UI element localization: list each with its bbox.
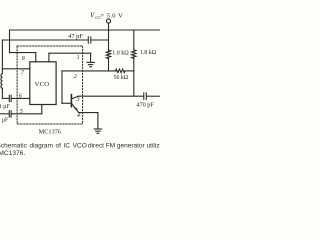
wire collector / output line	[78, 95, 143, 97]
svg-text:6: 6	[19, 94, 22, 100]
label 56 kOhm	[114, 75, 129, 81]
svg-text:direct FM generator utilizing: direct FM generator utilizing	[88, 143, 160, 150]
pin 6	[19, 94, 22, 100]
svg-text:56 kΩ: 56 kΩ	[114, 75, 129, 81]
svg-text:470 pF: 470 pF	[136, 102, 154, 109]
ground pin 1	[87, 61, 94, 63]
emitter arrow	[74, 107, 78, 110]
capacitor C 470pF	[143, 93, 145, 100]
label Vcc value	[90, 11, 123, 20]
svg-text:1.8 kΩ: 1.8 kΩ	[140, 50, 157, 56]
pin 1	[77, 55, 80, 61]
svg-text:MC1376.: MC1376.	[0, 150, 25, 157]
pin 7	[21, 71, 25, 77]
svg-text:3: 3	[76, 97, 80, 103]
wire 56k to R1.8k lead	[125, 70, 134, 72]
wire Vcc stub	[108, 23, 110, 30]
wire pin 8 stub into VCO	[35, 53, 37, 62]
svg-text:V: V	[90, 11, 95, 19]
pin 2	[74, 74, 77, 80]
IC dashed box MC1376	[17, 46, 83, 124]
wire pin 5 stub into VCO	[41, 105, 43, 114]
svg-text:5: 5	[20, 109, 23, 115]
caption line 2	[0, 150, 25, 157]
svg-text:MC1376: MC1376	[39, 129, 61, 136]
wire pin 1 line to ground	[49, 52, 91, 54]
resistor R1 1.0k vertical	[108, 30, 110, 50]
transistor Q1 emitter	[72, 104, 79, 113]
wire base lead	[62, 102, 71, 104]
wire pin 1 stub from VCO top	[48, 53, 50, 62]
label 1.0 kOhm	[112, 50, 129, 56]
transistor Q1 collector	[72, 96, 78, 99]
wire pin 7 line	[2, 68, 29, 70]
label 470 pF	[136, 102, 154, 109]
inductor L1	[1, 74, 2, 89]
resistor R 56k zigzag	[116, 69, 126, 73]
wire Vcc bus	[10, 29, 161, 31]
pin 4	[77, 112, 80, 119]
svg-text:.1 µF: .1 µF	[0, 118, 9, 124]
transistor Q1 base bar	[70, 95, 72, 107]
svg-text:.01 µF: .01 µF	[0, 104, 10, 110]
capacitor C .1uF	[8, 111, 10, 117]
pin 8	[22, 56, 25, 62]
wire pin 8 line	[10, 52, 36, 54]
wire pin 4 line	[79, 112, 98, 114]
label .1 uF	[0, 118, 9, 124]
VCO block	[30, 62, 56, 105]
ground pin 4	[94, 128, 101, 130]
label 1.8 kOhm	[140, 50, 157, 56]
wire pin 6 line	[2, 97, 9, 99]
wire inductor bottom	[1, 88, 3, 98]
svg-text:Schematic diagram of IC VCO: Schematic diagram of IC VCO	[0, 143, 87, 150]
wire bus left drop to pin 8	[9, 30, 11, 53]
capacitor C 47 pF	[87, 37, 89, 43]
wire 47pF line	[2, 39, 88, 41]
capacitor C .01uF	[8, 95, 10, 101]
svg-text:1.0 kΩ: 1.0 kΩ	[112, 50, 129, 56]
svg-text:VCO: VCO	[35, 81, 50, 88]
caption line 1	[0, 143, 169, 150]
wire pin 2 / base node line	[62, 70, 116, 72]
svg-text:= 5.0 V: = 5.0 V	[100, 12, 123, 19]
svg-text:2: 2	[74, 74, 77, 80]
terminal Vcc	[106, 19, 110, 23]
svg-text:8: 8	[22, 56, 25, 62]
resistor R2 1.8k vertical	[133, 30, 135, 50]
svg-text:1: 1	[77, 55, 80, 61]
label 47 pF	[68, 33, 83, 40]
label MC1376	[39, 129, 61, 136]
wire left tank vertical	[1, 40, 3, 74]
pin 3	[76, 97, 80, 103]
label .01 uF	[0, 104, 10, 110]
wire base vertical	[61, 71, 63, 103]
svg-text:47 pF: 47 pF	[68, 33, 83, 40]
pin 5	[20, 109, 23, 115]
svg-text:7: 7	[21, 71, 25, 77]
wire pin 5 line	[0, 113, 9, 115]
